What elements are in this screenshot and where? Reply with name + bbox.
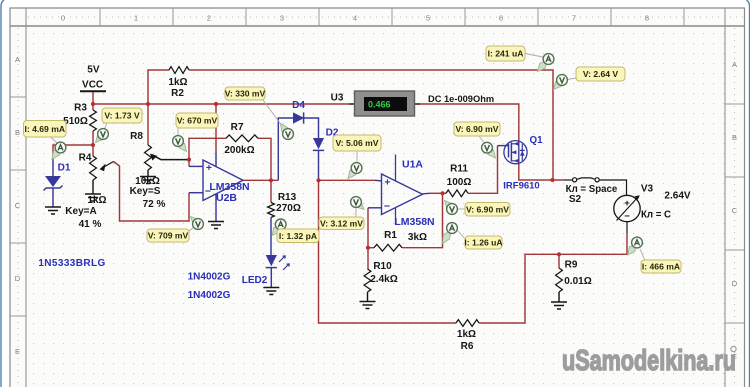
wire R13 top bbox=[270, 180, 272, 202]
svg-text:V: 3.12 mV: V: 3.12 mV bbox=[320, 218, 363, 228]
ground under R4 bbox=[85, 194, 101, 201]
wire U2B V+ pin bbox=[215, 104, 217, 151]
probe I 241uA bbox=[525, 54, 543, 58]
svg-text:1N4002G: 1N4002G bbox=[188, 272, 231, 283]
resistor R11 100 bbox=[446, 190, 468, 197]
junction node X U2B output bbox=[269, 178, 273, 182]
resistor R3 510 bbox=[90, 110, 97, 131]
ground under D1 bbox=[45, 207, 61, 214]
svg-text:Key=A: Key=A bbox=[65, 206, 96, 217]
ground under R9 bbox=[551, 302, 567, 309]
junction node VCC rail at U2B V+ bbox=[214, 102, 218, 106]
svg-text:R8: R8 bbox=[130, 131, 143, 142]
svg-text:D4: D4 bbox=[292, 100, 305, 111]
svg-text:A: A bbox=[732, 60, 737, 69]
svg-text:0.01Ω: 0.01Ω bbox=[564, 276, 591, 287]
wire R9 top bbox=[558, 254, 560, 268]
svg-text:41 %: 41 % bbox=[79, 219, 102, 230]
diode D4 bbox=[293, 112, 304, 123]
potentiometer R4 bbox=[90, 156, 97, 180]
svg-text:DC 1e-009Ohm: DC 1e-009Ohm bbox=[428, 94, 494, 104]
svg-text:−: − bbox=[384, 201, 390, 213]
ground under LED2 bbox=[263, 288, 279, 295]
junction node R3/R4/D1 bbox=[91, 143, 95, 147]
svg-text:IRF9610: IRF9610 bbox=[503, 180, 539, 191]
svg-text:S2: S2 bbox=[569, 194, 582, 205]
ground under R10 bbox=[360, 302, 376, 309]
junction node R9 top bbox=[557, 252, 561, 256]
svg-text:I: 466 mA: I: 466 mA bbox=[642, 262, 680, 272]
svg-text:U3: U3 bbox=[331, 93, 344, 104]
svg-text:R2: R2 bbox=[171, 88, 184, 99]
svg-text:510Ω: 510Ω bbox=[63, 116, 88, 127]
wire R9 bottom bbox=[558, 292, 560, 302]
wire U2B V- pin bbox=[215, 194, 217, 222]
svg-text:1kΩ: 1kΩ bbox=[457, 329, 476, 340]
probe V 330mV bbox=[263, 100, 285, 130]
wire switch to V3 bbox=[600, 180, 627, 196]
svg-text:V: 1.73 V: V: 1.73 V bbox=[104, 111, 140, 121]
svg-text:R9: R9 bbox=[565, 260, 578, 271]
svg-text:100Ω: 100Ω bbox=[447, 177, 472, 188]
svg-text:V: 670 mV: V: 670 mV bbox=[177, 116, 218, 126]
svg-text:6: 6 bbox=[499, 14, 503, 23]
svg-text:R11: R11 bbox=[450, 164, 468, 175]
wire R7 right to output node bbox=[258, 138, 271, 180]
svg-text:I: 4.69 mA: I: 4.69 mA bbox=[24, 124, 65, 134]
svg-text:72 %: 72 % bbox=[143, 199, 166, 210]
svg-text:1N5333BRLG: 1N5333BRLG bbox=[38, 258, 105, 269]
svg-text:5: 5 bbox=[426, 14, 430, 23]
svg-text:V: 5.06 mV: V: 5.06 mV bbox=[336, 138, 379, 148]
probe V 3.12mV bbox=[355, 207, 357, 217]
wire D2 cathode to node Y bbox=[318, 151, 320, 180]
probe V 6.90mV out bbox=[458, 208, 465, 210]
probe I 1.32pA bbox=[282, 227, 285, 229]
svg-text:7: 7 bbox=[572, 14, 576, 23]
resistor R7 200k bbox=[226, 135, 258, 142]
wire U2B output bbox=[243, 179, 278, 181]
ground under U2B bbox=[208, 222, 224, 229]
probe V 6.90mV gate bbox=[479, 136, 485, 143]
wire U1A output bbox=[423, 192, 431, 195]
resistor R10 2.4k bbox=[364, 269, 371, 292]
wire V3 bottom bbox=[626, 222, 628, 233]
wire R6 right bbox=[479, 254, 627, 323]
svg-text:R6: R6 bbox=[461, 341, 474, 352]
resistor R13 270 bbox=[268, 203, 275, 218]
probe I 4.69mA bbox=[50, 137, 57, 144]
probe V 670mV bbox=[177, 128, 179, 137]
wire U3 right pin bbox=[415, 103, 421, 105]
wire R13 to LED2 bbox=[270, 218, 272, 256]
svg-text:R10: R10 bbox=[373, 261, 392, 272]
svg-text:V: 709 mV: V: 709 mV bbox=[148, 231, 189, 241]
multimeter U3 bbox=[355, 91, 415, 116]
wire R1 left bbox=[368, 247, 374, 249]
svg-text:R1: R1 bbox=[384, 230, 397, 241]
svg-text:A: A bbox=[15, 55, 20, 64]
svg-text:3kΩ: 3kΩ bbox=[408, 232, 427, 243]
switch S2 bbox=[573, 178, 577, 182]
wire R4 wiper to minus input bbox=[114, 162, 190, 222]
svg-text:2.4kΩ: 2.4kΩ bbox=[370, 274, 397, 285]
wire plus node to R7 bbox=[189, 138, 226, 159]
wire U3 left pin bbox=[349, 103, 355, 105]
wire node Y to U1A plus bbox=[319, 179, 376, 181]
svg-text:D: D bbox=[732, 279, 738, 288]
svg-text:−: − bbox=[624, 211, 630, 222]
svg-text:1N4002G: 1N4002G bbox=[188, 290, 231, 301]
svg-text:R3: R3 bbox=[74, 103, 87, 114]
svg-text:B: B bbox=[732, 133, 737, 142]
diode D2 bbox=[313, 138, 324, 149]
probe V 709mV bbox=[188, 227, 194, 232]
wire R8 top bbox=[147, 104, 149, 145]
wire 5V rail bbox=[92, 92, 94, 111]
svg-text:+: + bbox=[624, 198, 630, 209]
wire R1 right feedback bbox=[402, 193, 443, 247]
junction node R8 wiper / U2B plus bbox=[187, 158, 191, 162]
svg-text:1kΩ: 1kΩ bbox=[168, 77, 187, 88]
svg-text:Кл = C: Кл = C bbox=[641, 209, 671, 220]
LED D3 LED2 bbox=[266, 255, 277, 266]
svg-text:I: 1.32 pA: I: 1.32 pA bbox=[279, 231, 317, 241]
transistor Q1 IRF9610 bbox=[504, 141, 527, 164]
junction node Y U1A plus bbox=[316, 178, 320, 182]
svg-text:C: C bbox=[732, 206, 738, 215]
wire R10 bottom bbox=[367, 292, 369, 302]
svg-text:Q1: Q1 bbox=[529, 135, 543, 146]
svg-text:+: + bbox=[206, 162, 212, 174]
wire R3 bottom node bbox=[92, 131, 94, 156]
wire plus input stub bbox=[188, 160, 190, 167]
svg-text:V3: V3 bbox=[641, 184, 654, 195]
wire Q1 bottom to switch bbox=[519, 163, 564, 180]
probe V 5.06mV bbox=[356, 151, 358, 164]
probe I 1.26uA bbox=[458, 231, 466, 240]
svg-text:R4: R4 bbox=[79, 153, 92, 164]
potentiometer R8 bbox=[145, 145, 152, 170]
junction node Q1/S2 column bbox=[550, 178, 554, 182]
resistor R2 1k bbox=[169, 67, 189, 74]
svg-text:VCC: VCC bbox=[82, 79, 103, 90]
ground under R8 bbox=[140, 177, 156, 184]
wire R2 branch up bbox=[148, 70, 169, 104]
wire D4 anode bbox=[278, 118, 293, 180]
diode D1 zener bbox=[45, 176, 61, 187]
svg-text:270Ω: 270Ω bbox=[276, 203, 301, 214]
resistor R1 3k bbox=[374, 244, 402, 251]
op-amp U2B bbox=[203, 160, 243, 201]
svg-text:I: 241 uA: I: 241 uA bbox=[488, 49, 524, 59]
junction node VCC rail at R3 bbox=[91, 102, 95, 106]
svg-text:D: D bbox=[15, 274, 21, 283]
svg-text:D1: D1 bbox=[58, 163, 71, 174]
svg-text:R7: R7 bbox=[231, 122, 244, 133]
source V3 bbox=[614, 195, 640, 221]
wire R2 to Q1 column bbox=[189, 70, 553, 180]
svg-text:R13: R13 bbox=[278, 192, 297, 203]
svg-text:2: 2 bbox=[207, 14, 211, 23]
svg-text:Key=S: Key=S bbox=[130, 186, 161, 197]
svg-text:B: B bbox=[15, 128, 20, 137]
resistor R6 1k bbox=[456, 320, 479, 327]
svg-text:uSamodelkina.ru: uSamodelkina.ru bbox=[562, 345, 736, 377]
svg-text:3: 3 bbox=[280, 14, 284, 23]
svg-text:LED2: LED2 bbox=[242, 275, 268, 286]
svg-text:0.466: 0.466 bbox=[368, 100, 391, 110]
probe V 2.64V bbox=[568, 78, 577, 80]
probe V 1.73V bbox=[104, 123, 107, 130]
wire R11 right to gate bbox=[468, 146, 498, 194]
svg-text:V: 2.64 V: V: 2.64 V bbox=[583, 69, 619, 79]
junction node VCC rail at R2/R8 bbox=[146, 102, 150, 106]
svg-text:0: 0 bbox=[61, 14, 65, 23]
svg-text:U2B: U2B bbox=[216, 192, 237, 204]
resistor R9 0.01 bbox=[556, 268, 563, 292]
wire U1A minus input bbox=[367, 208, 369, 248]
svg-text:1kΩ: 1kΩ bbox=[87, 195, 106, 206]
svg-text:C: C bbox=[15, 201, 21, 210]
svg-text:+: + bbox=[384, 176, 390, 188]
probe I 466mA bbox=[640, 249, 645, 261]
svg-text:V: 6.90 mV: V: 6.90 mV bbox=[466, 204, 509, 214]
wire node Y down to R6 bbox=[319, 180, 457, 323]
wire D4 cathode to D2 bbox=[304, 118, 319, 138]
wire R8 wiper bbox=[152, 155, 189, 160]
svg-text:I: 1.26 uA: I: 1.26 uA bbox=[464, 238, 502, 248]
svg-text:E: E bbox=[15, 347, 20, 356]
op-amp U1A bbox=[382, 174, 423, 215]
svg-text:1: 1 bbox=[134, 14, 138, 23]
wire R10 top bbox=[367, 248, 369, 269]
svg-text:U1A: U1A bbox=[402, 159, 423, 171]
svg-text:2.64V: 2.64V bbox=[664, 191, 690, 202]
wire node to D1 bbox=[53, 145, 93, 160]
svg-text:V: 6.90 mV: V: 6.90 mV bbox=[456, 124, 499, 134]
svg-text:8: 8 bbox=[645, 14, 649, 23]
junction node U1A output / R11 bbox=[440, 191, 444, 195]
svg-text:5V: 5V bbox=[87, 65, 100, 76]
svg-text:LM358N: LM358N bbox=[394, 216, 434, 228]
svg-text:200kΩ: 200kΩ bbox=[224, 145, 254, 156]
junction node R1/R10/U1A minus bbox=[366, 246, 370, 250]
svg-text:4: 4 bbox=[353, 14, 357, 23]
svg-text:V: 330 mV: V: 330 mV bbox=[225, 89, 266, 99]
